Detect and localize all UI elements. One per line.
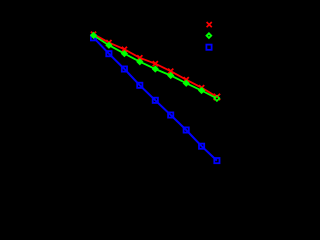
legend blue square bbox=[206, 45, 211, 50]
red series x markers bbox=[91, 32, 220, 101]
last green diamond (black-filled, over red x) bbox=[214, 96, 219, 101]
blue open square markers bbox=[91, 35, 220, 163]
red series line bbox=[94, 34, 217, 97]
legend diamond black center dot bbox=[208, 35, 209, 36]
red dot inside last diamond bbox=[216, 97, 218, 99]
legend green diamond bbox=[206, 33, 211, 38]
legend red x bbox=[207, 22, 212, 27]
green open diamond markers bbox=[91, 33, 204, 93]
blue series line bbox=[94, 38, 217, 161]
green series line bbox=[94, 35, 217, 98]
